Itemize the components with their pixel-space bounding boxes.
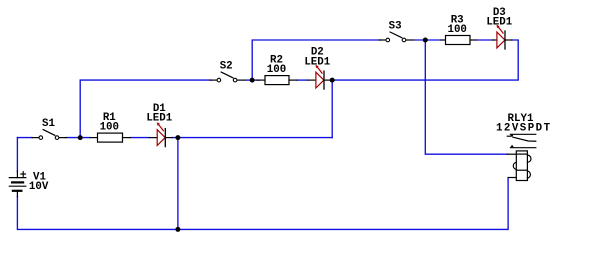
svg-text:10V: 10V: [29, 181, 49, 193]
svg-text:LED1: LED1: [486, 17, 512, 29]
svg-text:S2: S2: [220, 61, 233, 73]
svg-text:S3: S3: [389, 21, 402, 33]
svg-text:100: 100: [267, 64, 286, 76]
svg-text:S1: S1: [42, 118, 55, 130]
svg-text:LED1: LED1: [304, 56, 330, 68]
svg-text:100: 100: [100, 122, 119, 134]
svg-text:LED1: LED1: [146, 112, 172, 124]
svg-text:100: 100: [447, 24, 466, 36]
svg-text:12VSPDT: 12VSPDT: [496, 122, 552, 134]
